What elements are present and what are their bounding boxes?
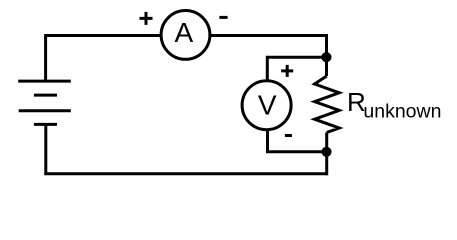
battery B1 short plate 2 [34, 123, 57, 126]
ammeter plus sign [140, 12, 153, 25]
voltmeter minus sign [285, 134, 292, 137]
wire voltmeter bottom leg [268, 130, 327, 152]
wire left vertical upper [44, 34, 47, 81]
wire voltmeter top leg [267, 57, 326, 80]
wire right vertical upper [325, 34, 328, 76]
svg-text:unknown: unknown [363, 100, 441, 122]
wire bottom [44, 172, 326, 175]
voltmeter V1 circle [242, 81, 291, 130]
svg-text:V: V [258, 89, 277, 120]
wire right vertical lower [325, 133, 328, 176]
wire left vertical lower [44, 124, 47, 173]
battery B1 long plate 1 [18, 80, 71, 83]
wire top from battery to right corner [46, 34, 327, 37]
voltmeter plus sign [281, 65, 293, 77]
battery B1 long plate 2 [19, 109, 71, 112]
svg-text:A: A [175, 17, 194, 48]
ammeter minus sign [219, 16, 227, 19]
resistor R_unknown zigzag [315, 76, 340, 133]
battery B1 short plate 1 [34, 94, 57, 97]
ammeter A1 circle [161, 11, 210, 60]
junction node bottom [321, 147, 331, 157]
junction node top [321, 52, 331, 62]
